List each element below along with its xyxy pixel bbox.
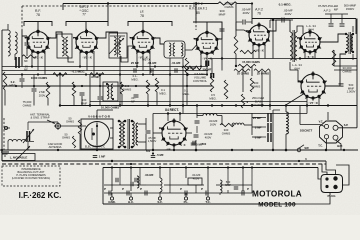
svg-text:MEG.: MEG. (182, 92, 189, 96)
resistor 300 ohms filter (220, 123, 234, 126)
IF transformer T2 (164, 41, 185, 58)
svg-text:OHMS: OHMS (62, 136, 70, 140)
svg-text:76: 76 (257, 12, 261, 16)
svg-text:MF: MF (24, 59, 28, 63)
wire osc coil to V2 (68, 56, 74, 62)
wire terminal drops (111, 193, 113, 197)
resistor mid 73 (72, 82, 76, 96)
capacitor P6 (241, 191, 243, 196)
svg-text:1,500V: 1,500V (148, 139, 157, 143)
tuning arrow T1 (109, 38, 124, 54)
strip cluster extra (137, 176, 139, 188)
switch SW (297, 148, 301, 152)
wire 300mmf drop (221, 40, 223, 59)
oscillator coil windings (107, 84, 109, 99)
wire B+ top rail (252, 18, 356, 20)
IF transformer T1 (110, 35, 125, 57)
wire coupling to V5 (236, 22, 249, 33)
wire bias cols (235, 54, 237, 66)
svg-text:10,000 OHMS: 10,000 OHMS (101, 106, 119, 110)
wire top plate line (63, 3, 218, 5)
svg-text:PL.: PL. (184, 200, 189, 204)
svg-text:A.F.3: A.F.3 (323, 9, 330, 13)
svg-text:1 MF: 1 MF (99, 155, 106, 159)
resistor 500 ohms (120, 82, 123, 94)
wire T1 to V3 grid (121, 46, 133, 62)
svg-text:H.C.: H.C. (128, 200, 134, 204)
wire grid-cap V4 (206, 22, 208, 31)
strip inner horiz (104, 184, 146, 186)
svg-text:DET. 2: DET. 2 (193, 2, 203, 6)
oscillator coil L2 (62, 37, 64, 56)
resistor 0.1 meg bus (90, 73, 104, 77)
svg-text:25 MF: 25 MF (131, 61, 139, 65)
coil movable (8, 140, 26, 142)
tube V3 I.F. 78 (129, 29, 155, 56)
svg-text:1000 OHMS: 1000 OHMS (31, 76, 48, 80)
wire bus right y58 (208, 58, 300, 60)
electrostatic shield box (81, 119, 113, 149)
svg-text:SW: SW (304, 146, 309, 150)
svg-text:400V: 400V (284, 12, 291, 16)
capacitor antenna 100MMF (25, 42, 30, 44)
svg-text:MOTOROLA: MOTOROLA (252, 190, 302, 199)
svg-text:BAT.: BAT. (337, 144, 343, 148)
capacitor .01-MF (150, 68, 152, 73)
wire bus y70 (2, 70, 208, 72)
wire grid-cap bracket V3 (128, 22, 172, 27)
wire strip row (104, 192, 252, 194)
wire speaker right edge (356, 60, 358, 70)
resistor 10000 vert (234, 36, 238, 54)
vibrator unit (85, 122, 110, 147)
resistor 30000 ohms (332, 50, 336, 66)
svg-text:1,000V: 1,000V (347, 90, 356, 94)
capacitor .05MF 400V (242, 20, 244, 25)
capacitor 500MMF mid (80, 92, 85, 94)
svg-text:500 MF: 500 MF (203, 68, 212, 72)
svg-text:78: 78 (36, 13, 40, 17)
wire rail y101 (90, 101, 307, 103)
wire rail y113 (153, 113, 307, 115)
potentiometer 250-ohm bias (241, 94, 244, 108)
feedthrough connector (55, 123, 60, 128)
wire interference bottom (4, 149, 75, 151)
capacitor .04 block (188, 178, 202, 185)
plug (321, 175, 343, 193)
power transformer blobs (118, 120, 121, 123)
svg-text:V·I·B·R·A·T·O·R: V·I·B·R·A·T·O·R (88, 115, 111, 119)
resistor 0.1meg r (155, 78, 158, 92)
svg-text:MF: MF (24, 68, 28, 72)
wire V7 plate to T4 (325, 54, 346, 86)
wire antenna top (1, 30, 3, 160)
resistor 75000 ohms (46, 82, 50, 98)
wire cap drops strip (196, 114, 198, 119)
wire bus under V5 (300, 58, 357, 60)
svg-text:0.1-MEG.: 0.1-MEG. (279, 3, 292, 7)
capacitor P2 (126, 191, 128, 196)
svg-text:ANTENNA: ANTENNA (49, 145, 62, 149)
svg-text:300: 300 (202, 142, 207, 146)
svg-text:P: P (104, 187, 106, 191)
antenna coil L1 (8, 30, 10, 56)
capacitor P3 (144, 191, 146, 196)
wire V4 plate up (193, 22, 222, 39)
resistor V1 cathode (22, 55, 36, 58)
wire bus y66 (2, 66, 208, 68)
resistor det plate long (182, 66, 201, 70)
wire column V1-left (22, 35, 27, 37)
choke L3 (203, 114, 217, 116)
svg-text:& GND. STRAP: & GND. STRAP (31, 116, 50, 120)
wire transformer leads (138, 123, 146, 125)
svg-text:↑V7 ↑X: ↑V7 ↑X (308, 101, 318, 105)
wire choke join (197, 115, 203, 117)
wire v5 col (272, 20, 274, 59)
svg-text:MEG.: MEG. (209, 96, 216, 100)
junction dots chassis (57, 149, 59, 151)
capacitor dark a (205, 61, 207, 67)
strip inner verticals (119, 168, 121, 186)
capacitor 300MMF (220, 28, 225, 30)
choke L4 (232, 123, 244, 125)
wire right edge (356, 19, 358, 128)
svg-text:↑V8: ↑V8 (165, 148, 171, 152)
wire switch line (196, 149, 344, 151)
svg-text:8 MF: 8 MF (255, 126, 262, 130)
wire V4 cathode drops (200, 53, 202, 67)
svg-text:L, MOVABLE: L, MOVABLE (10, 156, 28, 160)
svg-text:160V: 160V (210, 122, 217, 126)
svg-text:1500V: 1500V (346, 7, 354, 11)
svg-text:T.C.: T.C. (205, 200, 211, 204)
wire speaker leads (334, 65, 357, 67)
svg-text:CONTROL: CONTROL (193, 79, 208, 83)
svg-text:A.V.C.&A.F.1: A.V.C.&A.F.1 (189, 7, 208, 11)
svg-text:V.C.: V.C. (319, 120, 324, 124)
svg-text:S.P.: S.P. (344, 123, 349, 127)
tube V2 DET.1 OSC 77 (73, 29, 99, 56)
svg-text:500: 500 (146, 149, 151, 153)
svg-text:OHMS: OHMS (252, 84, 261, 88)
speaker field coil (286, 112, 288, 134)
svg-text:400V: 400V (205, 135, 212, 139)
potentiometer 0.5-MEG volume (185, 58, 189, 76)
wire osc section (99, 75, 101, 97)
capacitor .03-MF 400V (194, 134, 199, 136)
svg-text:78: 78 (140, 14, 144, 18)
capacitor .05MF 400V b (281, 18, 283, 23)
resistor 15000 (238, 64, 256, 67)
wire T2 to V4 grid (185, 45, 197, 50)
wire V6 plate to T4 (320, 34, 346, 42)
wire plug feed 3 (318, 168, 321, 180)
tube V5 A.F.2 76 (246, 22, 271, 48)
wire bus y74 (2, 74, 208, 76)
coil strip B (220, 180, 222, 193)
svg-text:S.F.: S.F. (157, 200, 162, 204)
ground stub left (1, 151, 9, 153)
resistor 0.2-MEG (3, 72, 6, 90)
svg-text:P: P (122, 187, 124, 191)
box IF transformer T1 (109, 33, 127, 58)
arrow ant terminal (47, 120, 55, 124)
oscillator coil box (103, 82, 118, 101)
capacitor 500MMF 1500V (340, 23, 345, 25)
svg-text:.01-MF: .01-MF (171, 61, 180, 65)
resistor 300 ohms v (250, 78, 253, 92)
resistor 25 ohms (254, 69, 270, 72)
svg-text:25 MF: 25 MF (253, 116, 261, 120)
wire V5 cathode drops (252, 45, 254, 59)
resistor det load (240, 50, 256, 53)
wire V2 cathode drops (79, 52, 81, 67)
tube V4 DET.2 85 (193, 30, 219, 57)
wire V7 drops (306, 97, 308, 114)
wire bus y86 (2, 85, 212, 87)
svg-text:.03-MF: .03-MF (145, 173, 154, 177)
arrow movable core (16, 146, 30, 160)
resistor 0.5 MEG (210, 76, 213, 92)
terminal PL (184, 197, 187, 200)
svg-text:MODEL 100: MODEL 100 (258, 202, 296, 209)
tube V6 A.F.3 6A4 upper (297, 29, 322, 55)
capacitor P1 (108, 191, 110, 196)
power transformer T5 (119, 119, 134, 149)
junction dots y86 (15, 85, 17, 87)
resistor 50 ohms B (72, 136, 75, 148)
dashed box interference (2, 166, 60, 186)
capacitor 25MF (133, 68, 135, 73)
wire strip left edge (102, 168, 104, 205)
wire V3 cathode drops (136, 52, 138, 67)
svg-text:77: 77 (82, 13, 86, 17)
svg-text:OHMS: OHMS (66, 120, 74, 124)
coil strip A (160, 178, 162, 192)
capacitor .01-MF b (174, 68, 176, 73)
speaker socket (320, 121, 343, 143)
wire mid band col2 (147, 94, 149, 106)
svg-text:MF: MF (334, 8, 338, 12)
strip extra caps (134, 178, 136, 183)
wire mid columns (119, 56, 121, 106)
wire AVC dashed bus (22, 5, 196, 7)
capacitor .01-MF mid (134, 94, 139, 96)
wire plug feed 4 (296, 193, 330, 205)
capacitor 2MF (32, 88, 37, 90)
strip junction dots (111, 166, 113, 168)
svg-text:(LOCATED IN OUTER HOUSING): (LOCATED IN OUTER HOUSING) (12, 177, 50, 180)
resistor 1000 ohms (53, 73, 67, 77)
output transformer thick (351, 34, 353, 52)
svg-text:85: 85 (196, 11, 200, 15)
capacitor .05MF 1500V (146, 130, 151, 132)
svg-text:84 RECT.: 84 RECT. (165, 108, 179, 112)
svg-text:OHMS: OHMS (123, 87, 132, 91)
capacitor V8 row (192, 141, 194, 146)
wire vibrator leads (96, 110, 98, 120)
resistor 50 ohms A (78, 120, 81, 134)
resistor 0.1meg mid (146, 80, 149, 94)
junction dots rail2 (167, 112, 169, 114)
junction dots buses (21, 73, 23, 75)
capacitor P4 (184, 191, 186, 196)
svg-text:SOCKET: SOCKET (300, 129, 313, 133)
svg-text:T.C.: T.C. (318, 144, 323, 148)
wire grid-cap bracket V2 (66, 22, 108, 27)
power transformer extra winding (136, 123, 138, 145)
tube V8 84 rectifier (159, 118, 188, 148)
tube V7 A.F.3 6A4 lower (298, 71, 327, 101)
wire rail junctions (59, 104, 61, 106)
svg-text:↑X: ↑X (182, 143, 185, 147)
tube V1 R.F. 78 (24, 29, 50, 56)
wire socket to field (285, 146, 287, 150)
wire electrolytic taps (252, 117, 262, 119)
svg-text:P: P (247, 187, 249, 191)
wire left col down (4, 90, 6, 106)
wire chassis bus y150 (0, 149, 358, 151)
wire T3 to V7 grid (290, 62, 301, 82)
capacitor .02MF top right (329, 23, 334, 25)
svg-text:I.F.·262 KC.: I.F.·262 KC. (19, 191, 62, 200)
terminal GND (110, 197, 113, 200)
svg-text:OHMS: OHMS (225, 5, 234, 9)
wire vol control col (186, 74, 188, 106)
wire strip verticals (111, 168, 113, 192)
resistor 0.5meg tall (224, 80, 228, 99)
terminal SF (158, 197, 161, 200)
output transformer T4 (346, 32, 353, 54)
interstage transformer T3 (290, 30, 297, 62)
box osc coil (57, 34, 72, 58)
capacitor 100MMF left (20, 78, 25, 80)
svg-text:P: P (180, 187, 182, 191)
svg-text:P: P (140, 187, 142, 191)
junction mid dots (221, 57, 223, 59)
svg-text:.01-MF: .01-MF (147, 61, 156, 65)
svg-text:↑V3 ↑X: ↑V3 ↑X (142, 58, 151, 62)
svg-text:.5 MF: .5 MF (156, 153, 164, 157)
svg-text:.05 MF: .05 MF (91, 75, 100, 79)
svg-text:MEG.: MEG. (131, 77, 138, 81)
wire plug feed 1 (135, 160, 326, 162)
svg-text:CONTROL: CONTROL (251, 103, 265, 107)
wire electrolytic common (272, 110, 274, 145)
svg-text:GND.: GND. (108, 200, 116, 204)
wire bottom bus A (2, 160, 326, 162)
svg-text:200V: 200V (39, 93, 46, 97)
svg-text:MMF: MMF (219, 13, 226, 17)
wire V5 plate to T3 (269, 20, 276, 31)
wire bottom bus B (2, 163, 326, 165)
box L movable (2, 154, 35, 161)
svg-text:OHMS: OHMS (222, 131, 231, 135)
junction dots bottom (111, 160, 113, 162)
wire plug feed 2 (322, 164, 327, 175)
interference trimmer A (26, 131, 28, 141)
wire V3 plate to T2 (154, 38, 165, 44)
wire strip horiz mid (146, 184, 160, 186)
wire V1 cathode drops (31, 52, 33, 67)
wire T4 secondary (352, 54, 354, 60)
capacitor dark b (210, 73, 212, 78)
wire grid-cap bracket V1 (24, 22, 52, 27)
wire strip bottom (103, 203, 296, 205)
wire V2 plate to T1 (97, 32, 118, 38)
svg-text:- 0.1-MEG.: - 0.1-MEG. (71, 70, 86, 74)
terminal TC (206, 197, 209, 200)
svg-text:6A4: 6A4 (308, 28, 314, 32)
wire interference left (3, 118, 5, 150)
wire socket leads (338, 127, 357, 129)
svg-text:400V: 400V (242, 11, 249, 15)
wire B+ rail y105 (60, 105, 357, 107)
wire bias diagonal (285, 93, 305, 106)
svg-text:OHMS: OHMS (23, 104, 32, 108)
svg-text:PLUG: PLUG (327, 194, 336, 198)
svg-text:15,000 OHMS: 15,000 OHMS (242, 60, 260, 64)
wire rect drops (167, 114, 169, 122)
capacitor 500 MMF 1000V (339, 83, 344, 85)
wire trimmer drop (27, 122, 29, 130)
svg-text:P: P (201, 187, 203, 191)
wire T3 secondary to V6 (297, 26, 303, 34)
capacitor .03-MF 160V (195, 120, 200, 122)
wire V6 drops (304, 52, 306, 59)
wire V1 plate to coil (49, 32, 63, 38)
capacitor .05MF left a (15, 57, 17, 68)
wire bottom bus C (103, 167, 318, 169)
resistor 10 ohms (234, 69, 250, 72)
capacitor P5 (205, 191, 207, 196)
svg-text:8 MF: 8 MF (255, 136, 262, 140)
terminal HC (129, 197, 132, 200)
svg-text:MEG.: MEG. (159, 91, 166, 95)
